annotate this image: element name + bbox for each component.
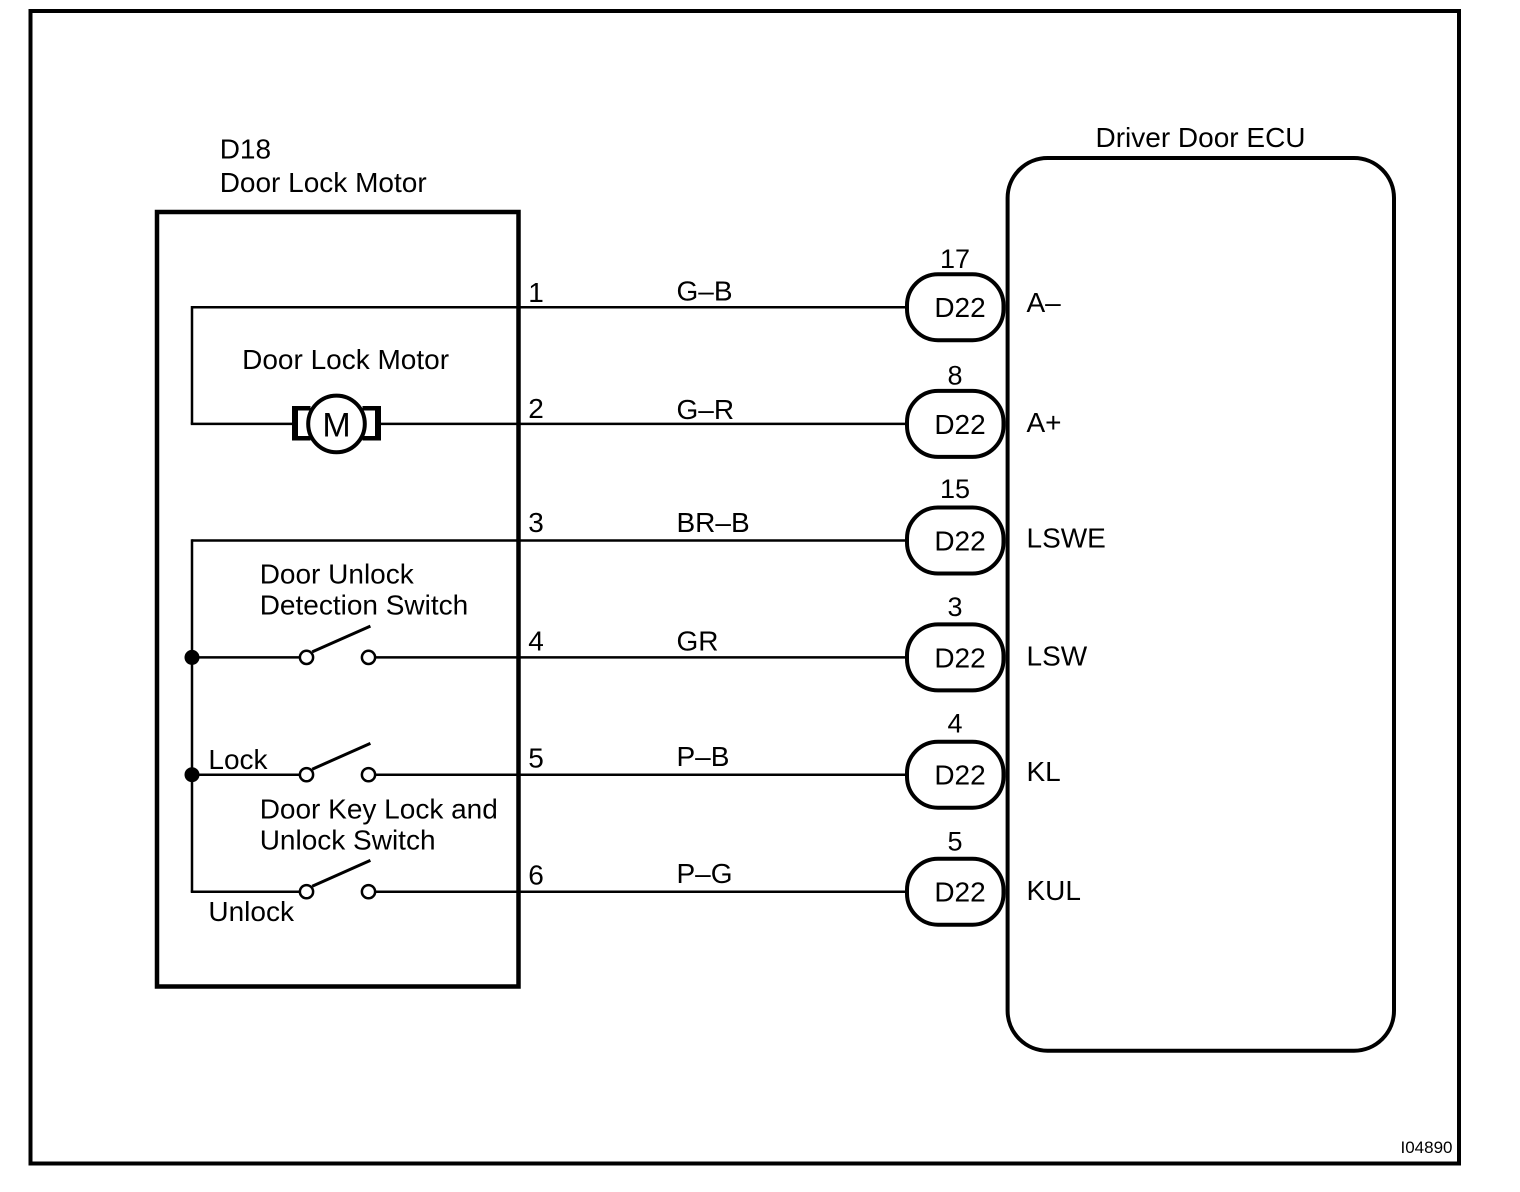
svg-text:M: M (322, 406, 350, 444)
switch S1 label Door Unlock Detection Switch (260, 559, 469, 621)
svg-text:3: 3 (528, 507, 544, 538)
wire corner to unlock switch (191, 890, 300, 893)
connector oval D22 pin 5 (907, 827, 1004, 925)
svg-text:5: 5 (528, 742, 544, 773)
svg-text:A–: A– (1027, 287, 1062, 318)
wire node to unlock-detection switch (192, 656, 300, 659)
svg-text:D18: D18 (220, 134, 271, 165)
motor M1 Door Lock Motor label (242, 344, 449, 375)
wire color label G-B (677, 276, 733, 307)
connector oval D22 pin 17 (907, 244, 1004, 340)
svg-text:D22: D22 (934, 292, 985, 323)
ECU pin name LSWE (1027, 522, 1106, 553)
svg-text:Unlock Switch: Unlock Switch (260, 825, 436, 856)
svg-text:Door Lock Motor: Door Lock Motor (220, 167, 427, 198)
svg-text:6: 6 (528, 860, 544, 891)
ECU pin name KL (1027, 756, 1061, 787)
svg-text:3: 3 (947, 592, 962, 622)
motor M1 right brush terminal bracket (363, 406, 382, 441)
svg-text:LSW: LSW (1027, 640, 1088, 671)
pin number 2 (528, 393, 544, 424)
pin number 4 (528, 626, 544, 657)
svg-text:D22: D22 (934, 409, 985, 440)
node junction dot B (lock tap) (185, 767, 200, 782)
connector oval D22 pin 8 (907, 361, 1004, 457)
svg-text:GR: GR (677, 626, 719, 657)
pin number 6 (528, 860, 544, 891)
ECU label Driver Door ECU (1095, 122, 1305, 153)
wire motor loop left vertical (191, 306, 194, 424)
figure id I04890 (1401, 1138, 1453, 1157)
svg-text:5: 5 (947, 827, 962, 857)
wire pin4 switch to D22 (net LSW) (375, 656, 907, 659)
svg-text:G–R: G–R (677, 394, 735, 425)
svg-text:4: 4 (947, 709, 962, 739)
svg-text:Detection Switch: Detection Switch (260, 590, 469, 621)
wire color label P-G (677, 858, 733, 889)
wire pin3 to D22 (net LSWE) (192, 539, 907, 542)
svg-text:8: 8 (947, 361, 962, 391)
svg-text:D22: D22 (934, 760, 985, 791)
svg-text:KL: KL (1027, 756, 1061, 787)
svg-text:2: 2 (528, 393, 544, 424)
ECU pin name A+ (1027, 407, 1062, 438)
svg-text:D22: D22 (934, 526, 985, 557)
wire pin5 switch to D22 (net KL) (375, 773, 907, 776)
ECU pin name KUL (1027, 875, 1081, 906)
ECU pin name LSW (1027, 640, 1088, 671)
connector oval D22 pin 3 (907, 592, 1004, 691)
svg-text:LSWE: LSWE (1027, 522, 1106, 553)
wire switch-bus left vertical (191, 539, 194, 891)
wire pin2 motor right terminal to D22 (net A+) (379, 423, 907, 426)
pin number 3 (528, 507, 544, 538)
wire node to lock switch (192, 773, 300, 776)
svg-text:Driver Door ECU: Driver Door ECU (1095, 122, 1305, 153)
svg-text:G–B: G–B (677, 276, 733, 307)
switch S2/S3 label Door Key Lock and Unlock Switch (260, 794, 498, 856)
switch S2 label Lock (208, 744, 268, 775)
node junction dot A (unlock detection tap) (185, 650, 200, 665)
svg-text:D22: D22 (934, 642, 985, 673)
svg-text:Unlock: Unlock (208, 896, 295, 927)
svg-text:1: 1 (528, 277, 544, 308)
svg-text:KUL: KUL (1027, 875, 1081, 906)
motor M1 circle body (308, 396, 365, 453)
svg-text:Lock: Lock (208, 744, 268, 775)
connector oval D22 pin 15 (907, 474, 1004, 574)
svg-text:Door Unlock: Door Unlock (260, 559, 415, 590)
connector D18 box (157, 212, 519, 987)
pin number 1 (528, 277, 544, 308)
wire color label GR (677, 626, 719, 657)
svg-text:Door Key Lock and: Door Key Lock and (260, 794, 498, 825)
wire color label P-B (677, 741, 730, 772)
svg-text:15: 15 (940, 474, 970, 504)
wire loop bottom to motor left terminal (191, 423, 294, 426)
connector oval D22 pin 4 (907, 709, 1004, 808)
wire pin6 switch to D22 (net KUL) (375, 890, 907, 893)
svg-text:Door Lock Motor: Door Lock Motor (242, 344, 449, 375)
switch S1 Door Unlock Detection Switch (300, 626, 375, 664)
ECU U1 Driver Door ECU box (1008, 158, 1394, 1051)
wire pin1 to D22 (net A-) (192, 306, 907, 309)
pin number 5 (528, 742, 544, 773)
connector label D18 (220, 134, 427, 198)
svg-text:17: 17 (940, 244, 970, 274)
svg-text:P–G: P–G (677, 858, 733, 889)
svg-text:A+: A+ (1027, 407, 1062, 438)
svg-text:I04890: I04890 (1401, 1138, 1453, 1157)
ECU pin name A- (1027, 287, 1062, 318)
svg-text:P–B: P–B (677, 741, 730, 772)
wire color label G-R (677, 394, 735, 425)
switch S3 label Unlock (208, 896, 295, 927)
svg-text:D22: D22 (934, 877, 985, 908)
svg-text:BR–B: BR–B (677, 507, 750, 538)
motor M1 left brush terminal bracket (292, 406, 311, 441)
switch S2 Door Key Lock contact (300, 743, 375, 781)
switch S3 Door Key Unlock contact (300, 860, 375, 898)
wire color label BR-B (677, 507, 750, 538)
svg-text:4: 4 (528, 626, 544, 657)
